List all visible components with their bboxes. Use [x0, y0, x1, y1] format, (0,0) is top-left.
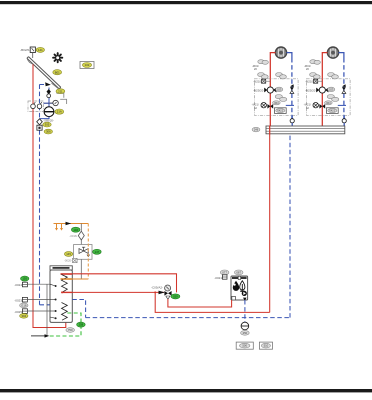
svg-text:146: 146 [73, 228, 78, 232]
supply riser (red) [270, 53, 275, 126]
bottom reference box 500 [236, 342, 253, 349]
safety discharge elbow 1 [57, 93, 64, 98]
svg-text:246: 246 [254, 128, 259, 132]
manifold label oval 246 [252, 127, 260, 131]
svg-text:305: 305 [45, 123, 50, 127]
boiler top band [232, 277, 238, 279]
valve label oval 305 [43, 122, 51, 127]
tank mid supply run (red) [72, 291, 164, 293]
svg-text:21A: 21A [57, 110, 62, 114]
station mixing valve [79, 249, 84, 254]
sensor -B02/6 box [30, 47, 35, 53]
heating return entry (blue dashed) [72, 300, 85, 318]
boiler bottom-left notch [232, 296, 236, 300]
solar collector B01 panel [27, 57, 61, 89]
tank top coil stub (red) [61, 273, 73, 275]
boiler body [231, 276, 248, 300]
circulation circuit (green dashed) [49, 313, 81, 336]
pressure gauge [53, 100, 58, 105]
check valve on return [290, 84, 294, 87]
junction dot [154, 291, 156, 293]
DHW draw-off line (orange) [54, 223, 89, 225]
DHW riser (orange dashed) [87, 224, 89, 280]
svg-text:077: 077 [222, 271, 227, 275]
sensor arrow [31, 335, 45, 337]
svg-text:102: 102 [85, 63, 90, 67]
sensor well line [46, 284, 48, 336]
svg-text:-M210: -M210 [253, 80, 261, 84]
shut-off valve circle [241, 322, 249, 330]
valve label oval [273, 101, 281, 105]
group label box 0421-1 [275, 108, 287, 114]
svg-text:-B02/6-: -B02/6- [20, 48, 30, 52]
svg-text:-0018-: -0018- [69, 234, 77, 238]
tap 1 [56, 224, 58, 229]
boiler feed (red) [168, 299, 232, 307]
mid label ovals [275, 95, 287, 102]
svg-text:510: 510 [264, 344, 269, 348]
manifold supply run (red) [155, 292, 270, 312]
tank left port line -0025 [28, 310, 50, 312]
pressure gauge wire [49, 102, 53, 104]
boiler flame symbol [240, 281, 245, 290]
label oval 250 [241, 331, 250, 336]
svg-text:306: 306 [46, 130, 51, 134]
tank top header [50, 266, 72, 270]
label oval yellow 145 [64, 252, 72, 257]
solar pump [44, 107, 54, 117]
svg-text:500: 500 [242, 344, 247, 348]
manifold distributor bar [266, 126, 345, 134]
svg-text:-C05/A2-: -C05/A2- [151, 286, 163, 290]
svg-text:750: 750 [68, 328, 73, 332]
tank body [50, 270, 72, 322]
thermometer on return [37, 104, 42, 109]
label oval green 146 [71, 227, 80, 232]
label oval yellow below -0025 [20, 314, 28, 319]
tank left port line -0023 [28, 299, 50, 301]
label oval green 258 [77, 322, 86, 327]
svg-text:250: 250 [243, 331, 248, 335]
tank DHW coil stub (orange) [61, 278, 73, 280]
tank top supply (red) [72, 274, 176, 293]
label ovals F [258, 60, 264, 64]
flow arrow on draw-off [66, 222, 72, 225]
expansion vessel stem [80, 224, 82, 245]
label oval gray G1/8 [20, 303, 28, 308]
tank left port line -0024 [28, 283, 50, 285]
label oval 141 [36, 47, 44, 52]
lower heat exchanger coil [62, 303, 68, 321]
return jog (blue) [286, 104, 294, 106]
drain fitting box [37, 125, 42, 130]
label oval gray 750 [66, 328, 75, 333]
valve -C05/A2 actuator [165, 285, 171, 291]
solar return pipe (blue dashed) vertical [39, 85, 41, 119]
svg-text:20: 20 [254, 67, 258, 71]
top page border bar [0, 1, 372, 4]
svg-text:0421: 0421 [277, 109, 283, 113]
safety discharge elbow 2 [60, 99, 66, 104]
svg-text:141: 141 [38, 48, 43, 52]
svg-text:-0023: -0023 [14, 298, 22, 302]
boxed label 102 [80, 62, 94, 69]
solar return pipe (blue dashed) top horizontal [40, 84, 50, 86]
DHW line from tank coil (orange) [61, 278, 88, 280]
main heating return (blue dashed horizontal) [86, 317, 290, 319]
mixing valve label oval [276, 87, 283, 91]
label ovals row2 left [258, 73, 265, 77]
internal sensor stubs [55, 285, 57, 319]
svg-text:-M25/20: -M25/20 [253, 88, 264, 92]
lockshield valve [291, 115, 293, 118]
svg-text:-0020-: -0020- [64, 259, 72, 263]
DHW station box [74, 245, 92, 260]
solar supply pipe (red) [33, 64, 66, 327]
svg-text:147: 147 [95, 250, 100, 254]
station check valve [87, 255, 90, 258]
boiler label ovals [220, 270, 229, 275]
valve -S85/20 diamond [37, 119, 43, 125]
boiler internal pump [242, 291, 247, 296]
label oval near collector end [56, 89, 65, 94]
pump circle [261, 103, 266, 108]
label oval green 029 [171, 294, 180, 299]
return riser (blue dashed) [287, 53, 292, 58]
svg-text:304: 304 [21, 314, 26, 318]
label oval green 147 [93, 249, 102, 254]
svg-text:B01: B01 [55, 70, 60, 74]
shut-off valve on supply [267, 104, 270, 109]
svg-text:087: 087 [236, 271, 241, 275]
flow arrow into valve [159, 291, 165, 295]
svg-text:52: 52 [254, 106, 258, 110]
svg-text:211: 211 [58, 89, 63, 93]
svg-text:-S85/20-: -S85/20- [43, 118, 54, 122]
sensor stem wire [32, 53, 34, 59]
svg-text:-0024: -0024 [14, 283, 22, 287]
label oval green above -0024 [21, 276, 29, 281]
tap 2 [61, 224, 63, 229]
pump outlet elbow (blue) [40, 117, 50, 119]
pump label oval 21A [55, 109, 64, 114]
boiler outlet arrow [243, 298, 247, 301]
drain label oval 306 [44, 129, 52, 134]
valve -C05/A2 body [164, 291, 168, 296]
check valve on solar return [47, 89, 51, 94]
manifold supply riser (red) [269, 134, 271, 313]
svg-text:064: 064 [274, 101, 279, 105]
label ovals row2 mid [276, 73, 283, 77]
manifold supply riser crossing bar (red) [269, 126, 271, 135]
collector bottom hook [52, 83, 59, 88]
svg-text:-0021: -0021 [214, 276, 222, 280]
sun symbol [53, 53, 62, 62]
group dash-dot box [254, 79, 298, 116]
thermometer on supply [31, 104, 36, 109]
actuator box [262, 79, 266, 83]
boiler drop symbol [233, 281, 239, 291]
tank mid supply stub (red) [62, 291, 72, 293]
svg-text:145: 145 [66, 252, 71, 256]
svg-text:258: 258 [79, 323, 84, 327]
bottom reference box 510 [259, 342, 272, 349]
flow arrow at collector return [45, 82, 51, 86]
station cold drop wire [80, 259, 82, 279]
solar station riser (blue solid) [48, 88, 50, 108]
consumer circle load 1 [275, 47, 286, 58]
manifold return riser (blue dashed) [289, 134, 291, 318]
vent tick [44, 102, 54, 104]
svg-text:029: 029 [173, 295, 178, 299]
upper heat exchanger coil [62, 275, 68, 293]
label oval B01 [53, 70, 62, 75]
svg-text:G18: G18 [21, 304, 27, 308]
boiler flue/blue outlet (blue dashed) [244, 300, 246, 322]
solar return entry to tank (blue dashed) [40, 304, 51, 306]
expansion vessel diamond [78, 231, 84, 240]
svg-text:155: 155 [22, 277, 27, 281]
bottom page border bar [0, 389, 372, 392]
instrument dash-dot box [28, 101, 44, 112]
svg-text:023: 023 [277, 88, 282, 92]
collector top hook to red pipe [27, 59, 33, 64]
